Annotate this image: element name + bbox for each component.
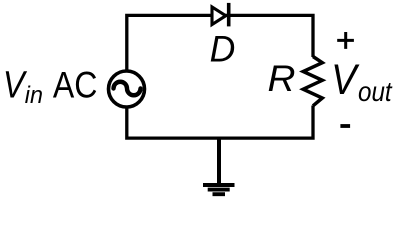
svg-text:out: out xyxy=(358,75,393,107)
wire: bottom loop from resistor bottom, across bottom, up to AC source bottom xyxy=(127,106,313,139)
ground bar 1 xyxy=(203,183,235,187)
svg-text:V: V xyxy=(331,55,360,103)
label R xyxy=(268,59,296,100)
wire: top-left loop from AC source top, across top, down to resistor xyxy=(127,15,313,70)
ground bar 2 xyxy=(208,188,230,192)
resistor R zigzag xyxy=(303,57,322,106)
label Vout: out subscript xyxy=(358,75,393,107)
diode D cathode bar xyxy=(227,3,231,27)
AC source sine wave xyxy=(114,82,141,96)
label AC xyxy=(53,65,97,106)
svg-text:AC: AC xyxy=(53,65,97,106)
label D xyxy=(210,28,236,70)
svg-text:D: D xyxy=(210,28,236,70)
ground bar 3 xyxy=(213,192,226,196)
AC source Vin circle xyxy=(109,71,145,107)
ground stem wire xyxy=(217,138,221,183)
label Vout: V xyxy=(331,55,360,103)
svg-text:R: R xyxy=(268,59,296,100)
diode D triangle (anode) xyxy=(212,7,226,25)
label Vin: in subscript xyxy=(25,82,43,108)
plus sign (V_out polarity) xyxy=(337,32,354,49)
minus sign (V_out polarity) xyxy=(340,124,350,128)
svg-text:in: in xyxy=(25,82,43,108)
label Vin: V xyxy=(3,63,28,106)
